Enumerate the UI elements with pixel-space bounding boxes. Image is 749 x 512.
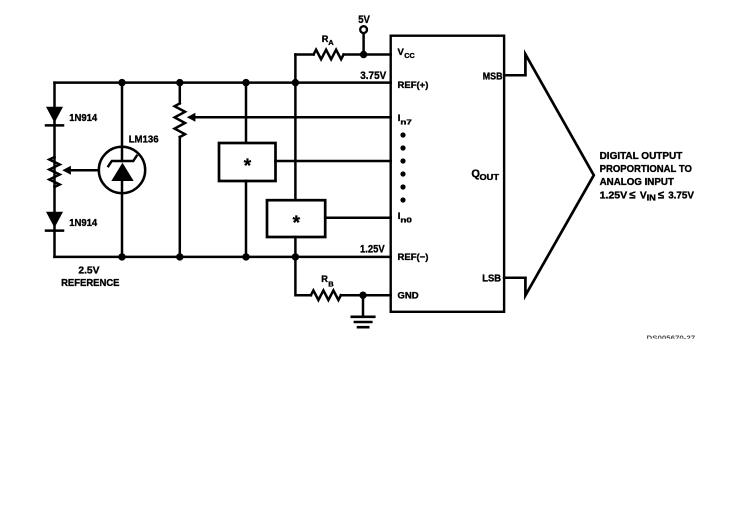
svg-text:3.75V: 3.75V xyxy=(668,190,694,201)
svg-text:n7: n7 xyxy=(400,117,412,126)
IC pin label GND xyxy=(398,290,419,301)
wire: LSB stub xyxy=(504,277,525,280)
wire: box1 bottom branch xyxy=(245,181,248,257)
wire: MSB stub xyxy=(504,74,525,77)
wire: LM136 vertical branch xyxy=(121,83,124,257)
wire: box2 output to In0 xyxy=(325,217,391,220)
wire: REF(+) top horizontal net 3.75V xyxy=(55,81,391,84)
IC pin label REF(-) xyxy=(398,252,429,263)
IC pin label REF(+) xyxy=(398,80,429,91)
label RA xyxy=(322,34,335,47)
svg-text:*: * xyxy=(244,156,252,177)
label 2.5V REFERENCE xyxy=(61,265,120,289)
IC pin label In7 xyxy=(398,113,412,126)
label 1N914 (bottom) xyxy=(69,217,97,229)
junction dot GND xyxy=(359,292,366,299)
potentiometer R2 (upper middle) xyxy=(175,103,185,137)
svg-text:REF(+): REF(+) xyxy=(398,80,429,91)
wire: box1 top branch xyxy=(245,83,248,143)
potentiometer R1 (left, between diodes) xyxy=(49,157,59,187)
svg-text:1.25V: 1.25V xyxy=(600,190,628,201)
wire: RB to GND pin xyxy=(341,294,391,297)
svg-text:REF(−): REF(−) xyxy=(398,252,429,263)
label RB xyxy=(321,274,334,288)
wire: box1 output to IC xyxy=(275,160,390,163)
IC pin label MSB xyxy=(483,71,503,82)
junction dot VCC/5V xyxy=(360,51,367,58)
svg-text:DS005670-27: DS005670-27 xyxy=(647,335,696,342)
svg-text:1N914: 1N914 xyxy=(69,112,97,124)
label 5V xyxy=(358,14,370,26)
watermark DS005670-27 (clipped) xyxy=(647,335,696,342)
svg-text:IN: IN xyxy=(647,192,656,202)
label 1N914 (top) xyxy=(69,112,97,124)
wire: left vertical rail xyxy=(53,83,56,257)
label 3.75V xyxy=(360,70,386,82)
svg-text:MSB: MSB xyxy=(483,71,503,82)
wire: In7 net from IC to R2 wiper arrow xyxy=(187,113,391,122)
IC pin label VCC xyxy=(398,47,416,60)
IC pin label LSB xyxy=(482,273,501,284)
svg-text:ANALOG INPUT: ANALOG INPUT xyxy=(600,177,675,188)
svg-text:GND: GND xyxy=(398,290,419,301)
resistor RA xyxy=(314,50,344,60)
divider block X2 (*) xyxy=(267,200,325,237)
svg-text:LSB: LSB xyxy=(482,273,501,284)
wire: box2 top branch from VCC corner xyxy=(294,55,297,201)
svg-text:5V: 5V xyxy=(358,14,370,26)
svg-text:PROPORTIONAL TO: PROPORTIONAL TO xyxy=(600,164,692,175)
label * in X1 xyxy=(244,156,252,177)
label 1.25V xyxy=(360,243,385,255)
svg-text:B: B xyxy=(328,279,334,288)
svg-text:1.25V: 1.25V xyxy=(360,243,385,255)
wire: REF(-) bottom horizontal net 1.25V xyxy=(55,256,391,259)
label * in X2 xyxy=(293,213,301,234)
diode D1 1N914 (top) xyxy=(46,107,63,126)
wire: VCC horizontal with resistor RA xyxy=(295,53,390,56)
IC U1 outline xyxy=(391,36,504,312)
svg-text:n0: n0 xyxy=(400,215,412,224)
junction dots on REF(-) net xyxy=(118,253,299,260)
wire: LM136 adjust to wiper arrow xyxy=(62,166,99,175)
annotation: DIGITAL OUTPUT text block xyxy=(600,151,695,202)
svg-text:*: * xyxy=(293,213,301,234)
ellipsis dots inside IC xyxy=(400,132,405,202)
svg-text:LM136: LM136 xyxy=(129,134,159,146)
wire: potentiometer R2 vertical branch xyxy=(179,83,182,257)
svg-text:1N914: 1N914 xyxy=(69,217,97,229)
IC label QOUT xyxy=(471,168,499,182)
svg-text:DIGITAL OUTPUT: DIGITAL OUTPUT xyxy=(600,151,683,162)
divider block X1 (*) xyxy=(219,143,276,181)
label LM136 xyxy=(129,134,159,146)
svg-text:CC: CC xyxy=(404,51,415,60)
ground symbol xyxy=(352,295,375,327)
wire: RB branch down from REF(-) net xyxy=(295,257,311,295)
svg-text:≤: ≤ xyxy=(629,189,635,201)
svg-text:OUT: OUT xyxy=(480,173,500,182)
zener reference U2 LM136 xyxy=(99,147,145,193)
resistor RB xyxy=(311,290,341,300)
wire: box2 bottom branch xyxy=(294,237,297,257)
svg-text:A: A xyxy=(328,38,334,47)
diode D2 1N914 (bottom) xyxy=(46,212,63,231)
svg-text:REFERENCE: REFERENCE xyxy=(61,278,120,289)
junction dots on REF(+) net xyxy=(118,79,299,86)
svg-text:3.75V: 3.75V xyxy=(360,70,386,82)
digital output bus arrow xyxy=(525,54,593,295)
svg-text:2.5V: 2.5V xyxy=(78,265,99,276)
IC pin label In0 xyxy=(398,211,412,224)
svg-text:≤: ≤ xyxy=(658,189,664,201)
5V terminal xyxy=(360,26,367,54)
